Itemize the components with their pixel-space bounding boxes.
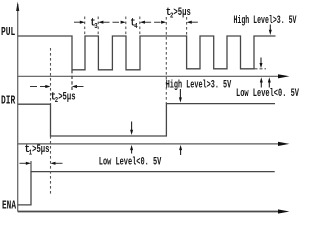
ENA rise tick above waveform: [30, 161, 32, 172]
label t3: [90, 18, 97, 32]
label t4: [130, 18, 137, 32]
vertical signal axis: [16, 2, 19, 212]
svg-text:Low Level<0. 5V: Low Level<0. 5V: [236, 88, 299, 100]
time axis 3 (ENA baseline): [18, 209, 290, 213]
label t2>5us top: [166, 7, 191, 21]
svg-text:PUL: PUL: [1, 26, 15, 39]
label t2>5us left: [51, 91, 76, 105]
svg-text:3: 3: [94, 23, 97, 31]
dashed reference line t2 left / DIR rise x=166.3: [165, 17, 167, 104]
dashed reference line t4 left x=125.8: [125, 17, 127, 36]
svg-text:DIR: DIR: [1, 95, 15, 108]
PUL waveform: [18, 36, 276, 70]
dashed reference line at DIR falling edge x=50.5: [50, 48, 52, 196]
low level arrows row2 (down onto DIR low, up onto axis2): [130, 122, 133, 154]
PUL first-fall dashed extension: [71, 70, 73, 90]
svg-text:>5μs: >5μs: [173, 7, 190, 19]
svg-text:4: 4: [134, 23, 137, 31]
dashed reference line t3 right x=98.2: [97, 17, 99, 36]
dashed reference line t2 right / PUL fall x=186.6: [186, 17, 188, 36]
low level arrows row1 (down onto PUL low, ups onto axis1): [260, 58, 271, 88]
t1 dimension arrows: [20, 162, 63, 165]
time axis 2 (DIR baseline): [18, 142, 290, 146]
t4 dimension arrows: [121, 21, 162, 24]
ENA waveform: [18, 172, 275, 205]
high level arrows row2 (down onto DIR high, up onto axis2): [179, 89, 182, 155]
svg-text:High Level>3. 5V: High Level>3. 5V: [166, 79, 232, 91]
DIR waveform: [18, 104, 275, 136]
svg-text:High Level>3. 5V: High Level>3. 5V: [234, 15, 297, 27]
svg-text:>5μs: >5μs: [58, 91, 75, 103]
t2 top dimension arrows: [161, 21, 198, 24]
t3 dimension arrows: [74, 21, 122, 24]
time axis 1 (PUL baseline): [18, 74, 290, 78]
PUL low dashed extension under low-level arrow: [255, 68, 267, 70]
svg-text:ENA: ENA: [2, 200, 16, 213]
high level arrow row1 (down onto PUL high): [269, 25, 272, 36]
dashed reference line t4 right x=139.8: [139, 17, 141, 36]
t2 left dimension arrows: [30, 85, 84, 88]
label t1>5us: [25, 144, 50, 158]
svg-text:Low Level<0. 5V: Low Level<0. 5V: [99, 157, 162, 169]
svg-text:>5μs: >5μs: [32, 144, 49, 156]
dashed reference line t3 left x=84.7: [84, 17, 86, 36]
